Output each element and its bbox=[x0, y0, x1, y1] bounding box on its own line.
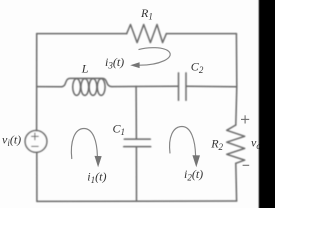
svg-text:vi(t): vi(t) bbox=[2, 133, 21, 149]
svg-text:L: L bbox=[81, 62, 89, 76]
wire middle branch upper bbox=[135, 86, 137, 139]
vi source plus sign bbox=[32, 133, 39, 146]
wire second row left bbox=[37, 86, 62, 88]
wire bottom bbox=[37, 200, 237, 202]
black sidebar bbox=[259, 0, 277, 210]
inductor L bbox=[62, 78, 112, 86]
loop arrow i3 bbox=[139, 48, 171, 66]
svg-text:i2(t): i2(t) bbox=[184, 167, 203, 183]
wire right edge lower bbox=[235, 163, 238, 201]
wire right edge upper bbox=[236, 34, 237, 125]
voltage source vi circle bbox=[25, 131, 47, 153]
svg-text:i1(t): i1(t) bbox=[87, 170, 106, 186]
wire left edge upper bbox=[36, 34, 38, 131]
mesh current arrows bbox=[71, 48, 200, 168]
loop arrow i2 bbox=[170, 127, 196, 156]
wire left edge lower bbox=[36, 152, 38, 201]
wire top-left to R1 bbox=[37, 33, 127, 35]
resistor R1 bbox=[127, 25, 167, 43]
wire middle branch lower bbox=[135, 147, 137, 201]
capacitor C2 plates bbox=[178, 73, 180, 100]
wire C2 to right edge bbox=[187, 85, 237, 87]
wire R1 to top-right corner bbox=[166, 33, 236, 35]
capacitor C1 plates bbox=[124, 138, 150, 140]
svg-text:i3(t): i3(t) bbox=[105, 55, 124, 71]
R2 polarity minus bbox=[243, 164, 250, 166]
wire L to C2 bbox=[112, 85, 178, 87]
R2 polarity plus bbox=[241, 115, 249, 165]
vi source minus sign bbox=[32, 145, 39, 147]
loop arrow i1 bbox=[71, 129, 97, 160]
resistor R2 bbox=[227, 125, 245, 163]
